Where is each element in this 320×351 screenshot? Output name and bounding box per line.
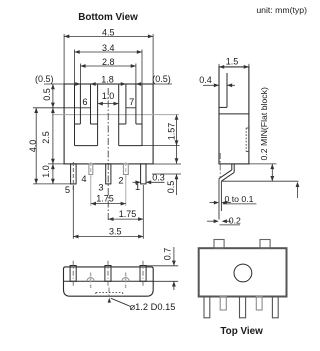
pin 4 dashed center — [90, 162, 92, 177]
dim 0.5 left line — [52, 84, 54, 108]
pin 3 outline — [106, 164, 111, 184]
front pin 5 centerline — [72, 261, 74, 286]
ext line pin tips left — [33, 183, 76, 185]
side pin diagonal outer — [219, 170, 232, 179]
svg-text:0.7: 0.7 — [162, 248, 172, 261]
svg-text:0.2 MIN(Flat block): 0.2 MIN(Flat block) — [259, 87, 269, 160]
svg-text:Bottom View: Bottom View — [78, 12, 138, 23]
svg-text:4.5: 4.5 — [102, 27, 115, 37]
top pin c — [240, 297, 246, 318]
svg-text:1.75: 1.75 — [119, 209, 137, 219]
svg-text:3: 3 — [98, 183, 103, 193]
svg-text:2: 2 — [118, 175, 123, 185]
svg-text:0.5: 0.5 — [166, 181, 176, 194]
svg-text:1.5: 1.5 — [226, 57, 239, 67]
side view pin6 inner edge — [226, 73, 228, 107]
top view tab 6 — [260, 240, 270, 249]
top pin a — [204, 297, 210, 318]
front hole dotted — [96, 292, 123, 294]
pin 4 outline (gray) — [89, 164, 93, 175]
pin 2 dashed center — [125, 162, 127, 177]
pin6 cavity left wall — [74, 84, 76, 146]
svg-text:1.75: 1.75 — [96, 194, 114, 204]
dim far right arrow — [297, 186, 299, 198]
svg-text:1.0: 1.0 — [41, 165, 51, 178]
svg-text:6: 6 — [82, 97, 87, 107]
dim 1.8 arrows — [91, 82, 96, 86]
dim 1.75 second line — [108, 218, 143, 220]
side view flat block hidden edge dotted — [245, 128, 247, 152]
top view body outline — [199, 248, 287, 296]
cavity ticks right — [136, 123, 142, 125]
ext cavity bottom right line — [142, 145, 180, 147]
side view pin6 tip tick — [219, 106, 227, 108]
front pin 3 centerline — [107, 261, 109, 286]
pin7 tip edge — [126, 107, 136, 109]
svg-text:1.8: 1.8 — [101, 74, 114, 84]
side pin stub left — [231, 164, 233, 170]
bottom view body outline — [64, 84, 153, 164]
ext lines 2.8 — [79, 64, 81, 85]
front pin 1 centerline — [142, 261, 144, 286]
svg-text:0 to 0.1: 0 to 0.1 — [225, 194, 254, 204]
pin6 right edge — [90, 84, 92, 124]
ext lines 3.4 — [74, 50, 76, 85]
dim (0.5) left arrow — [75, 82, 80, 86]
front view body outline — [64, 267, 154, 296]
dim 0to0.1 arrows — [210, 202, 215, 204]
ext lines 4.5 — [63, 34, 65, 84]
dim 4.0 line — [35, 108, 37, 184]
pin7 cavity right wall — [141, 84, 143, 146]
svg-text:3.5: 3.5 — [109, 227, 122, 237]
front ext pin top — [146, 265, 178, 267]
dim 3.4 line — [75, 51, 143, 53]
svg-text:4.0: 4.0 — [28, 140, 38, 153]
pin7 left edge — [125, 84, 127, 124]
svg-text:2.5: 2.5 — [41, 131, 51, 144]
pin 5 outline — [71, 164, 77, 184]
dim 0.5 short-pin line — [176, 146, 178, 164]
pin 1 outline — [141, 164, 146, 184]
ext short pin tip right line — [152, 173, 181, 175]
side pin bend centerline — [219, 153, 221, 178]
front view parting line — [64, 280, 154, 282]
side pin inner face vertical — [220, 181, 222, 211]
svg-text:(0.5): (0.5) — [152, 74, 171, 84]
side view body outline — [219, 67, 249, 164]
front pin 4 hidden — [90, 273, 92, 289]
pin 2 outline (gray) — [123, 164, 128, 175]
dim 1.75 first line — [91, 203, 126, 205]
top pin b short — [220, 297, 226, 311]
cavity right inner wall (tongue right) — [118, 84, 120, 146]
front pin 3 — [105, 266, 111, 282]
top view circle — [234, 264, 252, 282]
cavity ticks left — [75, 123, 81, 125]
dim 2.5 line — [52, 108, 54, 164]
ext pin4 center down — [90, 176, 92, 206]
front centerline vertical — [108, 288, 110, 297]
dim 1.0 left line — [52, 164, 54, 184]
ext body bottom right line — [153, 163, 181, 165]
dim 1.5 line — [219, 66, 249, 68]
dim 0to0.1 underline — [223, 203, 257, 205]
side view flat block top line — [219, 113, 249, 115]
svg-text:4: 4 — [81, 174, 86, 184]
side pin stub right — [233, 164, 235, 173]
side pin diagonal inner — [221, 172, 234, 181]
svg-text:⌀1.2 D0.15: ⌀1.2 D0.15 — [130, 302, 176, 312]
svg-text:0.4: 0.4 — [199, 75, 212, 85]
svg-text:3.4: 3.4 — [102, 43, 115, 53]
top pin d short — [256, 297, 262, 311]
hole leader arrow — [111, 298, 131, 306]
cavity left inner wall (tongue left) — [97, 84, 99, 146]
dim 1.0 line — [98, 103, 119, 105]
front pin 1 — [140, 266, 146, 282]
svg-text:Top View: Top View — [220, 326, 263, 337]
side pin outer face vertical — [218, 179, 220, 220]
svg-text:7: 7 — [129, 97, 134, 107]
dim row y84 line — [44, 83, 172, 85]
svg-text:0.5: 0.5 — [42, 88, 52, 101]
svg-text:unit: mm(typ): unit: mm(typ) — [256, 5, 307, 15]
front pin 2 hidden — [125, 273, 127, 289]
pin7 right edge — [135, 84, 137, 124]
dim 0.2 underline — [220, 224, 241, 226]
dim 0.4 line — [203, 84, 219, 86]
dim 4.5 line — [64, 35, 153, 37]
pin6 tip edge + extension — [33, 107, 91, 109]
dim 2.8 line — [80, 65, 135, 67]
ext pin5 center down — [72, 185, 74, 239]
dim 1.57 line — [176, 115, 178, 146]
pin 5 dashed center — [72, 162, 74, 190]
side ext 1.5 — [218, 64, 220, 67]
front ext parting line — [153, 280, 178, 282]
svg-text:1.57: 1.57 — [166, 123, 176, 141]
dim 3.5 line — [73, 236, 143, 238]
front pin 5 — [70, 266, 76, 282]
dim 0.2 arrows — [207, 220, 214, 222]
top view tab 7 — [214, 240, 224, 249]
flat block edge line (gray) — [53, 114, 179, 116]
top pin e — [272, 297, 278, 318]
pin6 left edge — [79, 84, 81, 124]
svg-text:1.0: 1.0 — [102, 91, 115, 101]
ext pin2 center down — [125, 176, 127, 206]
cavity bottom right — [119, 145, 142, 147]
dim 0.2MIN line — [271, 164, 273, 181]
cavity bottom left — [75, 145, 98, 147]
svg-text:(0.5): (0.5) — [35, 74, 54, 84]
svg-text:2.8: 2.8 — [102, 57, 115, 67]
svg-text:5: 5 — [65, 185, 70, 195]
side flat block bottom line — [221, 180, 298, 182]
svg-text:0.2: 0.2 — [229, 216, 241, 226]
dim 0.7 line — [173, 247, 175, 266]
vertical centerline — [107, 88, 109, 221]
ext line bottom edge left — [48, 163, 64, 165]
side body bottom ext right — [249, 163, 277, 165]
ext pin1 center down — [142, 185, 144, 239]
dim 0.3 line — [133, 181, 141, 183]
dim (0.5) right arrow — [136, 82, 141, 86]
